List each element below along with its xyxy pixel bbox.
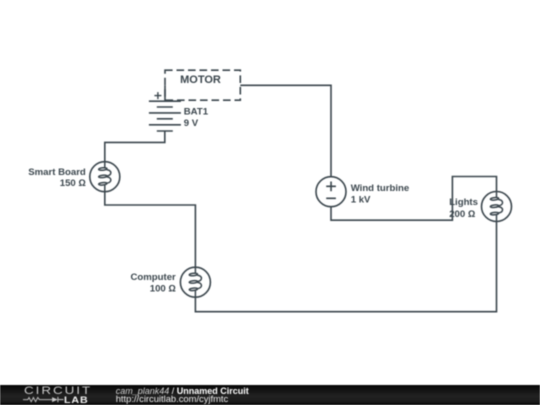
svg-text:1 kV: 1 kV (351, 194, 371, 205)
svg-text:100 Ω: 100 Ω (150, 284, 176, 295)
svg-text:BAT1: BAT1 (184, 106, 209, 117)
svg-text:MOTOR: MOTOR (180, 74, 221, 86)
svg-text:150 Ω: 150 Ω (60, 178, 86, 189)
svg-text:Lights: Lights (449, 197, 478, 208)
svg-text:Smart Board: Smart Board (28, 167, 86, 178)
svg-text:Wind turbine: Wind turbine (351, 183, 410, 194)
svg-text:Computer: Computer (130, 272, 176, 283)
svg-text:9 V: 9 V (184, 118, 199, 129)
svg-text:200 Ω: 200 Ω (449, 209, 475, 220)
